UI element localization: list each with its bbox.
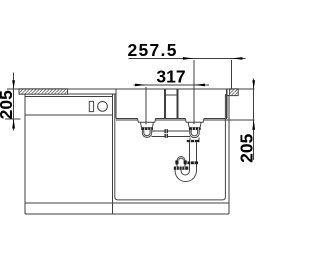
drawer front bottom xyxy=(25,114,112,116)
trap flange xyxy=(174,167,189,170)
left elbow cup inner xyxy=(144,130,150,136)
white slits in fittings xyxy=(145,128,151,130)
right locknut xyxy=(189,128,201,130)
divider wall lines xyxy=(164,89,166,119)
dim line 257.5 xyxy=(129,57,246,59)
left drain recess xyxy=(138,118,156,122)
trap vertical pipe xyxy=(188,142,190,171)
dim line 317 xyxy=(134,84,209,86)
svg-text:205: 205 xyxy=(0,90,16,119)
arrowhead 205 left bottom (points up) xyxy=(12,119,15,129)
divider web xyxy=(166,94,176,96)
bowl bottom lower line + right ext xyxy=(116,119,255,121)
arrowhead 257.5 right (points left) xyxy=(232,57,243,60)
ext line 205 left bottom xyxy=(5,118,21,120)
knob circle symbol xyxy=(98,102,108,112)
trap collar xyxy=(187,161,198,164)
right drain nut xyxy=(187,140,200,142)
left locknut xyxy=(141,128,153,130)
knob rectangle symbol xyxy=(89,101,93,111)
bowl left wall xyxy=(115,89,117,119)
countertop hatched section right xyxy=(230,89,239,96)
drawer front top xyxy=(25,96,112,98)
right elbow cup inner xyxy=(191,130,197,136)
svg-text:205: 205 xyxy=(236,133,256,162)
countertop hatched section left xyxy=(19,89,68,94)
arrowhead 317 left (points right) xyxy=(135,84,146,87)
horizontal drain pipe xyxy=(152,130,190,132)
trap U-bend outer xyxy=(175,170,196,182)
trap up-leg xyxy=(176,165,178,167)
trap U-bend inner xyxy=(181,170,189,175)
right ledge line xyxy=(227,95,230,97)
sink flange band bottom line xyxy=(68,93,117,95)
cabinet clearance box (rounded) xyxy=(115,94,226,200)
right strainer bell xyxy=(188,122,201,127)
arrowhead 257.5 left (points right) xyxy=(183,57,194,60)
cabinet floor band bottom xyxy=(25,213,229,215)
trap outlet arch outer xyxy=(177,157,185,161)
right drain recess xyxy=(185,118,204,122)
dim line 205 right xyxy=(253,79,255,161)
ext line 317 left drain center xyxy=(145,87,147,125)
arrowhead 317 right (points left) xyxy=(194,84,205,87)
arrowhead 205 right top (points down) xyxy=(252,80,255,89)
bowl bottom upper line xyxy=(116,117,227,119)
left elbow cup outer xyxy=(142,130,151,138)
ext line 257.5 right xyxy=(231,60,233,89)
ext line shared drain center xyxy=(193,60,195,124)
trap outlet ears xyxy=(175,160,178,164)
right drain neck xyxy=(190,137,199,140)
bowl right wall xyxy=(226,89,228,119)
dim line 205 left xyxy=(13,73,15,131)
arrowhead 205 right bottom (points up) xyxy=(252,120,255,130)
cabinet mid wall / drawer right edge xyxy=(111,94,113,214)
arrowhead 205 left top (points down) xyxy=(12,80,15,89)
cabinet left wall xyxy=(24,94,26,214)
pipe coupling xyxy=(165,129,168,133)
cabinet right wall xyxy=(228,96,230,215)
left strainer bell xyxy=(141,122,154,127)
cabinet floor band top xyxy=(25,202,229,204)
svg-text:317: 317 xyxy=(156,66,185,86)
svg-text:257.5: 257.5 xyxy=(127,40,177,60)
right elbow cup outer xyxy=(190,130,199,138)
countertop top line xyxy=(7,88,255,90)
trap outlet arch inner xyxy=(179,158,184,160)
